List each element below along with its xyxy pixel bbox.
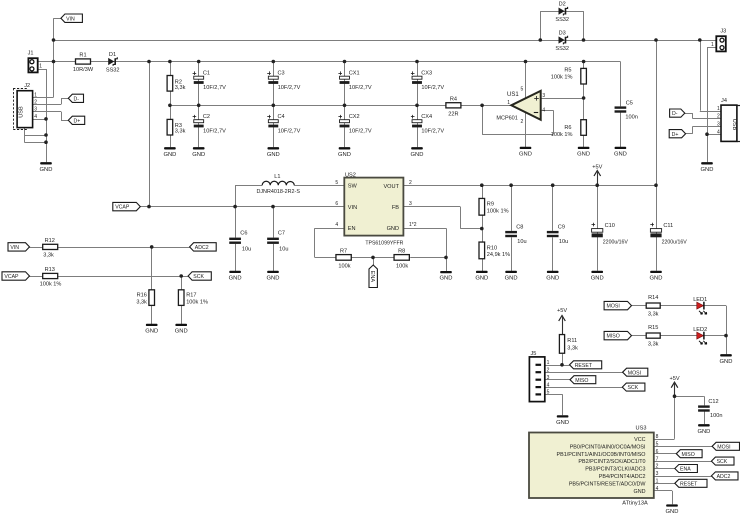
svg-text:MISO: MISO — [607, 334, 620, 340]
svg-text:2: 2 — [717, 114, 720, 120]
svg-text:J3: J3 — [720, 28, 726, 34]
svg-text:GND: GND — [701, 167, 714, 173]
svg-text:C12: C12 — [708, 399, 718, 405]
svg-text:CX1: CX1 — [349, 71, 360, 77]
svg-text:GND: GND — [666, 509, 679, 515]
svg-text:100k: 100k — [396, 263, 408, 269]
svg-text:3: 3 — [409, 201, 412, 207]
svg-text:GND: GND — [387, 226, 399, 232]
svg-text:22R: 22R — [448, 111, 458, 117]
svg-text:SCK: SCK — [628, 385, 639, 391]
svg-text:MOSI: MOSI — [717, 444, 730, 450]
svg-text:2: 2 — [409, 180, 412, 186]
svg-text:PB3/PCINT3/CLKI/ADC3: PB3/PCINT3/CLKI/ADC3 — [585, 467, 645, 473]
svg-text:1: 1 — [39, 63, 42, 69]
svg-text:FB: FB — [392, 205, 399, 211]
svg-text:1: 1 — [711, 42, 714, 48]
svg-text:100k 1%: 100k 1% — [186, 299, 208, 305]
svg-text:100k: 100k — [338, 263, 350, 269]
svg-text:GND: GND — [591, 276, 604, 282]
svg-text:VCAP: VCAP — [4, 274, 19, 280]
svg-text:100k 1%: 100k 1% — [551, 75, 573, 81]
svg-text:10u: 10u — [242, 247, 251, 253]
svg-text:CX2: CX2 — [349, 114, 360, 120]
svg-text:6: 6 — [335, 201, 338, 207]
svg-text:100n: 100n — [625, 115, 637, 121]
svg-text:C9: C9 — [558, 224, 565, 230]
svg-text:C5: C5 — [626, 100, 633, 106]
svg-text:J5: J5 — [531, 351, 537, 357]
svg-text:4: 4 — [335, 222, 338, 228]
svg-text:10u: 10u — [279, 247, 288, 253]
svg-text:10F/2,7V: 10F/2,7V — [278, 128, 301, 134]
svg-text:R16: R16 — [137, 293, 147, 299]
svg-text:C7: C7 — [278, 231, 285, 237]
svg-text:R10: R10 — [487, 245, 497, 251]
svg-text:1: 1 — [547, 360, 550, 366]
svg-text:10F/2,7V: 10F/2,7V — [349, 85, 372, 91]
svg-text:D2: D2 — [559, 1, 566, 7]
svg-text:8: 8 — [656, 434, 659, 440]
svg-text:US1: US1 — [507, 92, 519, 98]
svg-text:D1: D1 — [109, 52, 116, 58]
svg-text:GND: GND — [145, 329, 158, 335]
svg-text:ENA: ENA — [680, 467, 691, 473]
svg-text:GND: GND — [163, 152, 176, 158]
svg-text:GND: GND — [556, 420, 569, 426]
svg-text:GND: GND — [229, 276, 242, 282]
svg-text:SCK: SCK — [717, 459, 728, 465]
svg-text:3: 3 — [717, 122, 720, 128]
svg-text:L1: L1 — [274, 174, 280, 180]
svg-text:D3: D3 — [559, 30, 566, 36]
svg-text:PB1/PCINT1/AIN1/OC0B/INT0/MISO: PB1/PCINT1/AIN1/OC0B/INT0/MISO — [557, 452, 646, 458]
svg-text:DJNR4018-2R2-S: DJNR4018-2R2-S — [256, 189, 300, 195]
svg-text:10F/2,7V: 10F/2,7V — [349, 128, 372, 134]
svg-text:100k 1%: 100k 1% — [487, 209, 509, 215]
svg-text:GND: GND — [192, 152, 205, 158]
svg-text:C3: C3 — [278, 71, 285, 77]
svg-text:C10: C10 — [605, 223, 615, 229]
svg-text:GND: GND — [475, 276, 488, 282]
svg-text:R9: R9 — [487, 202, 494, 208]
svg-text:5: 5 — [521, 87, 524, 93]
svg-text:GND: GND — [720, 359, 733, 365]
svg-text:1*2: 1*2 — [409, 222, 417, 228]
svg-text:3,3k: 3,3k — [136, 299, 147, 305]
svg-text:C11: C11 — [663, 223, 673, 229]
svg-text:10R/3W: 10R/3W — [73, 67, 94, 73]
svg-text:RESET: RESET — [575, 363, 593, 369]
svg-text:LED2: LED2 — [693, 327, 707, 333]
svg-text:R7: R7 — [340, 249, 347, 255]
svg-text:10F/2,7V: 10F/2,7V — [203, 85, 226, 91]
svg-text:GND: GND — [40, 167, 53, 173]
svg-text:PB5/PCINT5/RESET/ADC0/DW: PB5/PCINT5/RESET/ADC0/DW — [569, 481, 647, 487]
svg-text:D+: D+ — [672, 132, 679, 138]
svg-text:2: 2 — [34, 100, 37, 106]
svg-text:24,9k 1%: 24,9k 1% — [487, 252, 510, 258]
svg-text:ENA: ENA — [369, 271, 375, 283]
svg-text:GND: GND — [634, 489, 646, 495]
svg-text:GND: GND — [546, 276, 559, 282]
svg-text:5: 5 — [656, 442, 659, 448]
svg-text:GND: GND — [175, 329, 188, 335]
svg-text:10F/2,7V: 10F/2,7V — [421, 128, 444, 134]
svg-text:US2: US2 — [345, 172, 356, 178]
svg-text:SS32: SS32 — [555, 46, 569, 52]
svg-text:C8: C8 — [516, 224, 523, 230]
svg-text:J4: J4 — [721, 98, 727, 104]
svg-text:10F/2,7V: 10F/2,7V — [203, 128, 226, 134]
svg-text:R1: R1 — [79, 52, 86, 58]
svg-text:MISO: MISO — [682, 452, 695, 458]
svg-text:SS32: SS32 — [106, 67, 120, 73]
svg-text:2200u/16V: 2200u/16V — [662, 239, 688, 245]
svg-text:3: 3 — [547, 375, 550, 381]
svg-text:4: 4 — [717, 129, 720, 135]
svg-text:3: 3 — [34, 107, 37, 113]
svg-text:5: 5 — [335, 180, 338, 186]
svg-text:D+: D+ — [74, 118, 81, 124]
svg-text:USB: USB — [731, 119, 737, 131]
svg-text:GND: GND — [577, 152, 590, 158]
svg-text:C1: C1 — [203, 71, 210, 77]
svg-text:PB2/PCINT2/SCK/ADC1/T0: PB2/PCINT2/SCK/ADC1/T0 — [578, 459, 645, 465]
svg-text:ADC2: ADC2 — [717, 474, 731, 480]
svg-text:R13: R13 — [45, 267, 55, 273]
svg-text:MCP601: MCP601 — [496, 115, 517, 121]
svg-text:4: 4 — [34, 114, 37, 120]
svg-text:10u: 10u — [559, 239, 568, 245]
svg-text:R8: R8 — [398, 249, 405, 255]
svg-text:2: 2 — [547, 367, 550, 373]
svg-text:CX3: CX3 — [421, 71, 432, 77]
svg-text:R4: R4 — [450, 97, 457, 103]
svg-text:R14: R14 — [648, 295, 658, 301]
svg-text:3,3k: 3,3k — [175, 85, 186, 91]
svg-text:1: 1 — [34, 92, 37, 98]
svg-text:CX4: CX4 — [421, 114, 432, 120]
svg-text:10F/2,7V: 10F/2,7V — [278, 85, 301, 91]
svg-text:5: 5 — [547, 390, 550, 396]
svg-text:GND: GND — [614, 152, 627, 158]
svg-text:RESET: RESET — [680, 481, 698, 487]
svg-text:TPS61099YFFR: TPS61099YFFR — [365, 241, 403, 247]
svg-text:+5V: +5V — [557, 308, 567, 314]
svg-text:GND: GND — [411, 152, 424, 158]
svg-text:PB4/PCINT4/ADC2: PB4/PCINT4/ADC2 — [599, 474, 646, 480]
svg-text:1: 1 — [656, 479, 659, 485]
svg-text:3,3k: 3,3k — [175, 129, 186, 135]
svg-text:3,3k: 3,3k — [648, 312, 659, 318]
svg-text:VOUT: VOUT — [383, 184, 399, 190]
svg-text:100n: 100n — [710, 413, 722, 419]
svg-text:C2: C2 — [203, 114, 210, 120]
svg-text:VIN: VIN — [10, 245, 19, 251]
svg-text:R11: R11 — [567, 338, 577, 344]
svg-text:US3: US3 — [636, 426, 647, 432]
svg-text:VCAP: VCAP — [115, 205, 130, 211]
svg-text:100k 1%: 100k 1% — [40, 282, 62, 288]
svg-text:GND: GND — [519, 152, 532, 158]
svg-text:LED1: LED1 — [693, 297, 707, 303]
svg-text:3,3k: 3,3k — [567, 346, 578, 352]
svg-text:D-: D- — [74, 96, 80, 102]
svg-text:C6: C6 — [240, 231, 247, 237]
svg-text:SCK: SCK — [193, 274, 204, 280]
svg-text:D-: D- — [672, 111, 678, 117]
svg-text:2: 2 — [656, 464, 659, 470]
svg-text:R15: R15 — [648, 325, 658, 331]
svg-text:J1: J1 — [28, 50, 34, 56]
svg-text:3: 3 — [542, 93, 545, 99]
svg-text:4: 4 — [656, 486, 659, 492]
svg-text:VIN: VIN — [348, 205, 357, 211]
svg-text:3: 3 — [656, 471, 659, 477]
svg-text:GND: GND — [440, 276, 453, 282]
svg-text:J2: J2 — [24, 83, 30, 89]
svg-text:100k 1%: 100k 1% — [551, 132, 573, 138]
svg-text:GND: GND — [697, 429, 710, 435]
svg-text:R6: R6 — [564, 125, 571, 131]
svg-text:6: 6 — [656, 449, 659, 455]
svg-text:ADC2: ADC2 — [195, 245, 209, 251]
svg-text:GND: GND — [650, 276, 663, 282]
svg-text:GND: GND — [505, 276, 518, 282]
svg-text:3,3k: 3,3k — [648, 342, 659, 348]
svg-text:SW: SW — [348, 184, 358, 190]
svg-text:PB0/PCINT0/AIN0/OC0A/MOSI: PB0/PCINT0/AIN0/OC0A/MOSI — [570, 444, 646, 450]
svg-text:SS32: SS32 — [555, 17, 569, 23]
svg-text:7: 7 — [656, 456, 659, 462]
svg-text:MOSI: MOSI — [607, 304, 620, 310]
svg-text:MISO: MISO — [575, 378, 588, 384]
svg-text:10F/2,7V: 10F/2,7V — [421, 85, 444, 91]
svg-text:VCC: VCC — [634, 437, 645, 443]
svg-text:10u: 10u — [517, 239, 526, 245]
svg-text:2200u/16V: 2200u/16V — [603, 239, 629, 245]
svg-text:GND: GND — [338, 152, 351, 158]
svg-text:VIN: VIN — [66, 16, 75, 22]
svg-text:1: 1 — [507, 100, 510, 106]
svg-text:EN: EN — [348, 226, 356, 232]
svg-text:4: 4 — [542, 108, 545, 114]
svg-text:GND: GND — [267, 276, 280, 282]
svg-text:R12: R12 — [45, 238, 55, 244]
svg-text:4: 4 — [547, 382, 550, 388]
svg-text:GND: GND — [267, 152, 280, 158]
svg-text:ATtiny13A: ATtiny13A — [622, 500, 648, 506]
svg-text:3,3k: 3,3k — [43, 252, 54, 258]
svg-text:R5: R5 — [564, 68, 571, 74]
svg-text:USB: USB — [19, 106, 25, 118]
svg-text:+5V: +5V — [669, 376, 679, 382]
svg-text:R17: R17 — [186, 293, 196, 299]
svg-text:C4: C4 — [278, 114, 285, 120]
svg-text:MOSI: MOSI — [628, 370, 641, 376]
svg-text:2: 2 — [521, 119, 524, 125]
svg-text:1: 1 — [717, 106, 720, 112]
